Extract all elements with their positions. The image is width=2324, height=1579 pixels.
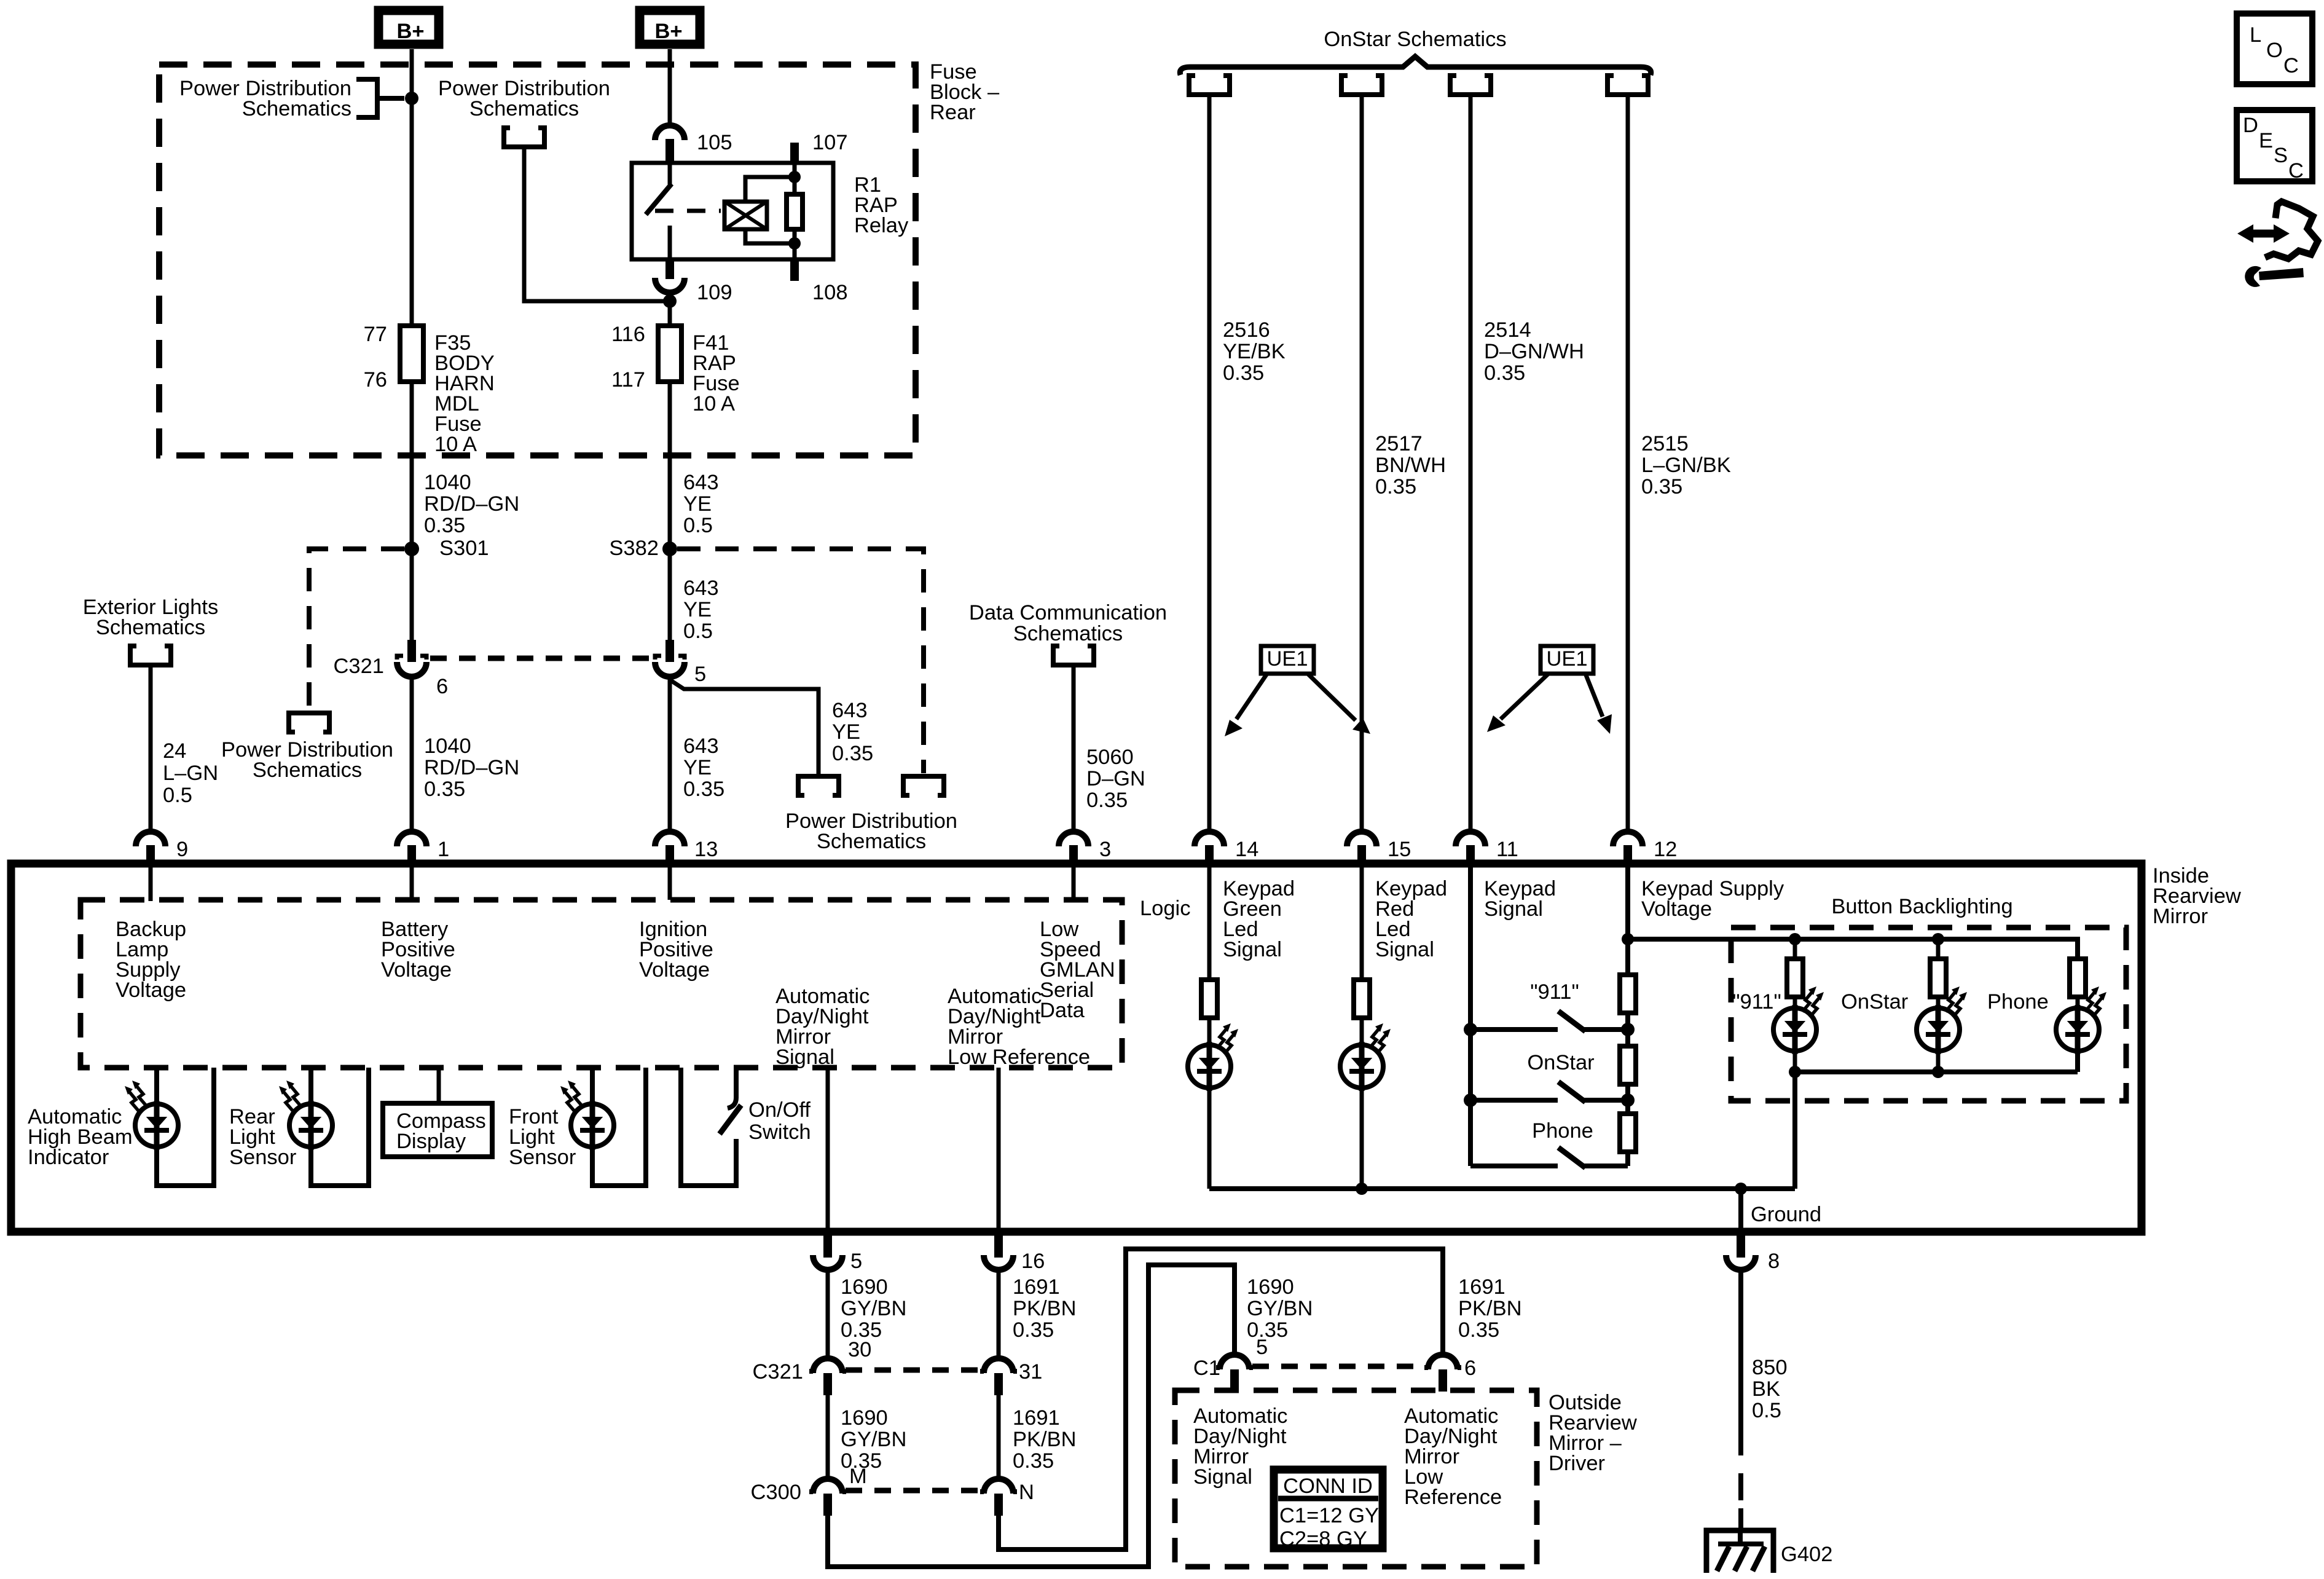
svg-text:Sensor: Sensor	[229, 1146, 296, 1169]
svg-text:Signal: Signal	[1193, 1465, 1252, 1489]
pin 16 connector	[984, 1234, 1013, 1270]
junction backlight 911	[1789, 933, 1801, 945]
svg-text:OnStar Schematics: OnStar Schematics	[1324, 28, 1506, 51]
wire label 2517 BN/WH 0.35	[1375, 432, 1446, 498]
svg-text:76: 76	[364, 368, 387, 392]
resistor ladder 1	[1620, 975, 1636, 1013]
svg-text:Voltage: Voltage	[381, 958, 452, 982]
relay coil	[724, 202, 767, 229]
pin 105 connector	[655, 125, 685, 157]
svg-text:643: 643	[683, 577, 719, 600]
power distribution reference 3 label	[438, 77, 610, 120]
svg-text:6: 6	[436, 675, 448, 698]
wire B+1 down to fuse F35	[410, 49, 414, 326]
wire pin3 into logic box	[1072, 864, 1076, 900]
svg-text:RD/D–GN: RD/D–GN	[424, 756, 519, 779]
wire from reference down and right to relay output node	[524, 147, 667, 301]
switch OnStar blade	[1558, 1082, 1585, 1102]
junction with reference feed	[663, 294, 677, 308]
relay internal resistor	[787, 194, 803, 229]
inside rearview mirror label	[2153, 864, 2241, 928]
outside rearview mirror label	[1549, 1391, 1637, 1475]
backlight 911 LED	[1773, 1005, 1816, 1054]
wire label 1690 GY/BN 0.35	[841, 1275, 906, 1342]
svg-text:C1=12 GY: C1=12 GY	[1279, 1504, 1379, 1527]
resistor green led	[1201, 980, 1217, 1018]
wire 2515 to pin 12	[1626, 95, 1630, 832]
power distribution reference 4 bracket	[903, 776, 944, 795]
pin 108 stub	[790, 259, 799, 281]
svg-text:2516: 2516	[1223, 318, 1270, 342]
wire label 1691 PK/BN 0.35	[1013, 1275, 1077, 1342]
svg-text:"911": "911"	[1530, 980, 1579, 1004]
light arrows green LED	[1217, 1023, 1238, 1054]
svg-text:"911": "911"	[1732, 990, 1781, 1014]
dashed gang line C321 bottom	[846, 1368, 981, 1373]
splice S382	[662, 541, 677, 556]
svg-text:C2=8 GY: C2=8 GY	[1279, 1527, 1367, 1551]
svg-text:S382: S382	[609, 537, 659, 560]
svg-text:RD/D–GN: RD/D–GN	[424, 492, 519, 516]
svg-text:Schematics: Schematics	[817, 830, 926, 853]
svg-text:BK: BK	[1752, 1377, 1780, 1401]
wire C321-31 to C300-N	[997, 1395, 1001, 1480]
svg-text:OnStar: OnStar	[1841, 990, 1908, 1014]
resistor red led	[1354, 980, 1370, 1018]
svg-text:643: 643	[683, 734, 719, 758]
pin label Backup Lamp Supply Voltage	[116, 918, 186, 1002]
backlighting return rail	[1795, 1051, 2078, 1072]
svg-text:D–GN/WH: D–GN/WH	[1484, 340, 1584, 363]
svg-text:15: 15	[1388, 838, 1411, 861]
svg-text:1691: 1691	[1013, 1406, 1060, 1430]
relay bottom node wiring	[745, 229, 795, 259]
wire pin109 to F41	[668, 293, 672, 326]
resistor ladder 3	[1620, 1114, 1636, 1152]
svg-text:L–GN/BK: L–GN/BK	[1641, 454, 1731, 477]
svg-text:2515: 2515	[1641, 432, 1689, 455]
wire 911 LED to rail	[1793, 1051, 1797, 1072]
UE1 reference box 1	[1261, 646, 1314, 674]
resistor backlight Phone	[2070, 959, 2086, 997]
pin 13 connector	[655, 832, 685, 864]
svg-text:GY/BN: GY/BN	[841, 1297, 906, 1320]
UE1 arrows 2	[1501, 674, 1549, 719]
wire to 911 resistor	[1793, 939, 1797, 959]
junction red LED on bus	[1356, 1183, 1368, 1195]
backlight OnStar LED	[1917, 1005, 1960, 1054]
switch Phone row	[1470, 1164, 1628, 1168]
light arrows backlight Phone	[2085, 986, 2106, 1017]
backlight Phone LED	[2056, 1005, 2099, 1054]
pin label Low Speed GMLAN Serial Data	[1040, 918, 1115, 1022]
wire label 643 YE 0.5	[683, 471, 719, 537]
svg-text:0.35: 0.35	[1086, 789, 1128, 812]
svg-text:Low Reference: Low Reference	[948, 1045, 1090, 1069]
wire to OnStar resistor	[1936, 939, 1941, 959]
svg-text:1690: 1690	[1247, 1275, 1294, 1299]
data communication reference bracket	[1053, 646, 1094, 665]
junction return 911	[1789, 1066, 1801, 1078]
svg-text:Button Backlighting: Button Backlighting	[1831, 895, 2012, 918]
svg-text:30: 30	[848, 1338, 871, 1361]
svg-text:L–GN: L–GN	[163, 762, 218, 785]
svg-text:YE/BK: YE/BK	[1223, 340, 1286, 363]
splice S301	[404, 541, 419, 556]
svg-text:Logic: Logic	[1140, 897, 1190, 920]
power distribution reference 2 label	[221, 738, 393, 782]
keypad signal rail pin 11	[1468, 864, 1473, 1166]
light arrows rear sensor	[279, 1081, 300, 1111]
svg-text:9: 9	[176, 838, 188, 861]
svg-text:0.5: 0.5	[683, 620, 713, 643]
switch 911 blade	[1558, 1011, 1585, 1031]
label On/Off Switch	[748, 1098, 811, 1144]
automatic high beam indicator loop	[157, 1068, 214, 1186]
pin 109 connector	[665, 259, 674, 279]
svg-text:Mirror: Mirror	[2153, 905, 2208, 928]
svg-text:GY/BN: GY/BN	[841, 1428, 906, 1451]
wire 1690 C300 to C1-5	[828, 1265, 1235, 1567]
svg-text:1040: 1040	[424, 734, 471, 758]
svg-text:117: 117	[611, 368, 645, 392]
junction supply to backlighting	[1622, 933, 1634, 945]
power distribution reference 3 bracket	[504, 128, 544, 147]
svg-text:0.35: 0.35	[832, 742, 873, 765]
switch 911 row	[1470, 1027, 1628, 1032]
resistor backlight OnStar	[1930, 959, 1946, 997]
junction OnStar left	[1464, 1093, 1477, 1107]
ground bus inside mirror	[1209, 1186, 1795, 1191]
light arrows backlight 911	[1802, 986, 1824, 1017]
dashed branch S301 to power distribution reference	[309, 549, 404, 712]
svg-text:2517: 2517	[1375, 432, 1423, 455]
wire pin13 into logic box	[668, 864, 672, 900]
ground wire below pin 8	[1738, 1270, 1743, 1532]
svg-text:14: 14	[1235, 838, 1258, 861]
keypad red led signal label	[1375, 877, 1447, 961]
OnStar reference bracket 4	[1608, 76, 1648, 95]
B+ terminal 1	[379, 10, 439, 44]
exterior lights reference label	[83, 596, 219, 639]
wire label 2516 YE/BK 0.35	[1223, 318, 1286, 385]
svg-text:0.35: 0.35	[1013, 1449, 1054, 1473]
svg-text:5060: 5060	[1086, 746, 1134, 769]
resistor ladder 2	[1620, 1046, 1636, 1084]
wire to pin 9	[149, 665, 153, 832]
wire below F41	[668, 382, 672, 640]
relay top node wiring	[745, 163, 795, 202]
branch wire 643 to reference 5	[670, 677, 819, 775]
svg-text:Schematics: Schematics	[253, 758, 362, 782]
switch Phone blade	[1558, 1148, 1585, 1168]
exterior lights reference bracket	[130, 646, 171, 665]
wire label 1691 PK/BN at C1	[1458, 1275, 1522, 1342]
wire resistor to LED	[1207, 1018, 1212, 1045]
svg-text:PK/BN: PK/BN	[1013, 1297, 1077, 1320]
svg-text:E: E	[2259, 129, 2273, 152]
pin 107 stub	[790, 143, 799, 163]
wire 2514 to pin 11	[1469, 95, 1473, 832]
wire C321-30 to C300-M	[826, 1395, 830, 1480]
automatic high beam indicator LED	[135, 1101, 178, 1150]
DESC box	[2237, 110, 2312, 183]
wire pin16 low reference inside logic box	[997, 1068, 1001, 1233]
svg-text:Phone: Phone	[1532, 1119, 1593, 1143]
svg-text:77: 77	[364, 323, 387, 346]
svg-text:13: 13	[694, 838, 718, 861]
keypad green led signal label	[1223, 877, 1295, 961]
svg-text:Signal: Signal	[1484, 897, 1543, 921]
svg-text:Driver: Driver	[1549, 1452, 1605, 1475]
label Automatic High Beam Indicator	[28, 1105, 133, 1169]
svg-text:B+: B+	[654, 20, 682, 43]
svg-text:C: C	[2283, 54, 2299, 77]
svg-text:643: 643	[683, 471, 719, 494]
wire pin16 to C321-31	[997, 1270, 1001, 1360]
fuse F35	[400, 326, 423, 382]
svg-text:G402: G402	[1781, 1543, 1832, 1566]
svg-text:Voltage: Voltage	[116, 979, 186, 1002]
connector C321 pin 5	[655, 640, 685, 677]
svg-text:UE1: UE1	[1546, 647, 1587, 671]
svg-text:24: 24	[163, 739, 186, 763]
wire label 2515 L-GN/BK 0.35	[1641, 432, 1731, 498]
svg-text:S301: S301	[439, 537, 489, 560]
connector C1 pin 6	[1424, 1355, 1461, 1392]
svg-text:109: 109	[697, 281, 732, 304]
UE1 reference box 2	[1541, 646, 1593, 674]
wire label 1691 PK/BN lower	[1013, 1406, 1077, 1473]
wire label 850 BK 0.5	[1752, 1356, 1788, 1422]
compass display box	[383, 1103, 492, 1157]
svg-text:1690: 1690	[841, 1275, 888, 1299]
dashed connector gang line C321	[430, 656, 651, 661]
svg-text:850: 850	[1752, 1356, 1788, 1379]
inner logic dashed box	[80, 900, 1122, 1068]
svg-text:1040: 1040	[424, 471, 471, 494]
svg-text:C1: C1	[1193, 1357, 1220, 1380]
svg-text:1691: 1691	[1458, 1275, 1505, 1299]
branch wire label 643 YE 0.35	[832, 699, 873, 765]
wire red LED to ground bus	[1360, 1088, 1364, 1189]
svg-text:S: S	[2274, 144, 2288, 167]
tools icon hand outline	[2265, 202, 2318, 259]
svg-text:0.35: 0.35	[424, 778, 465, 801]
keypad supply rail pin 12	[1625, 864, 1630, 975]
label outside mirror low reference	[1404, 1404, 1502, 1509]
front light sensor LED	[571, 1101, 614, 1150]
connector C300 pin N	[980, 1479, 1017, 1516]
svg-text:B+: B+	[396, 20, 424, 43]
svg-text:1: 1	[438, 838, 449, 861]
svg-text:GY/BN: GY/BN	[1247, 1297, 1313, 1320]
UE1 arrows 1	[1236, 674, 1267, 719]
wire label 5060 D-GN 0.35	[1086, 746, 1145, 812]
rear light sensor LED	[289, 1101, 332, 1150]
dashed gang line C300	[846, 1488, 981, 1494]
ground wire through box bottom	[1738, 1189, 1743, 1233]
svg-text:11: 11	[1496, 838, 1518, 861]
svg-text:C300: C300	[751, 1481, 801, 1504]
svg-text:16: 16	[1021, 1250, 1045, 1273]
svg-text:10 A: 10 A	[434, 433, 477, 456]
svg-text:On/Off: On/Off	[748, 1098, 811, 1122]
pin 8 connector	[1726, 1234, 1756, 1270]
svg-text:D–GN: D–GN	[1086, 767, 1145, 790]
svg-text:YE: YE	[832, 720, 860, 744]
wire pin5 mirror signal inside logic box	[826, 1068, 830, 1233]
pin 12 connector	[1613, 832, 1643, 864]
wire label 1690 GY/BN at C1	[1247, 1275, 1313, 1342]
pin 14 connector	[1195, 832, 1224, 864]
wire label 643 YE 0.35	[683, 734, 724, 801]
resistor backlight 911	[1787, 959, 1803, 997]
wire 2517 to pin 15	[1360, 95, 1364, 832]
junction ground tap on bus	[1735, 1183, 1747, 1195]
label Front Light Sensor	[509, 1105, 576, 1169]
on/off switch blade	[720, 1105, 741, 1134]
LOC box	[2237, 14, 2312, 84]
rear light sensor loop	[311, 1068, 369, 1186]
svg-text:0.35: 0.35	[1013, 1318, 1054, 1342]
fuse F41	[658, 326, 681, 382]
pin 11 connector	[1456, 832, 1485, 864]
wire B+2 down to pin 105	[668, 49, 672, 127]
svg-text:1690: 1690	[841, 1406, 888, 1430]
wire pin1 into logic box	[410, 864, 414, 900]
svg-text:UE1: UE1	[1266, 647, 1308, 671]
wire pin15 to resistor	[1360, 864, 1364, 980]
wire OnStar LED to rail	[1936, 1051, 1941, 1072]
connector C321 pin 31	[980, 1358, 1017, 1395]
svg-text:Relay: Relay	[854, 214, 909, 237]
junction return OnStar	[1932, 1066, 1944, 1078]
label Automatic Day/Night Mirror Signal	[775, 985, 870, 1069]
light arrows front sensor	[560, 1081, 582, 1111]
button backlighting dashed box	[1731, 927, 2126, 1101]
svg-text:0.35: 0.35	[424, 514, 465, 537]
relay R1 box	[632, 163, 833, 259]
wire below F35	[410, 382, 414, 640]
label Rear Light Sensor	[229, 1105, 296, 1169]
svg-text:0.35: 0.35	[1223, 361, 1264, 385]
pin 15 connector	[1347, 832, 1376, 864]
svg-text:31: 31	[1019, 1360, 1042, 1384]
pin 3 connector	[1059, 832, 1088, 864]
svg-text:Schematics: Schematics	[242, 97, 351, 120]
svg-text:10 A: 10 A	[693, 392, 735, 415]
svg-text:5: 5	[850, 1250, 862, 1273]
outside rearview mirror dashed box	[1175, 1390, 1537, 1567]
inside rearview mirror box	[11, 864, 2141, 1232]
connector C300 pin M	[809, 1479, 846, 1516]
wire C321-6 to pin 1	[410, 677, 414, 832]
svg-text:YE: YE	[683, 756, 712, 779]
front light sensor loop	[592, 1068, 646, 1186]
relay switch link dashes	[655, 209, 721, 213]
svg-text:D: D	[2243, 114, 2258, 137]
keypad signal label	[1484, 877, 1556, 921]
OnStar reference bracket 2	[1341, 76, 1382, 95]
svg-text:3: 3	[1099, 838, 1111, 861]
junction 911 left	[1464, 1023, 1477, 1036]
connector C321 pin 6	[397, 640, 426, 677]
power distribution reference 1 bracket	[356, 79, 404, 117]
wire label 1690 GY/BN lower	[841, 1406, 906, 1473]
tools icon wrench	[2245, 266, 2261, 287]
keypad supply voltage label	[1641, 877, 1784, 921]
svg-text:PK/BN: PK/BN	[1458, 1297, 1522, 1320]
junction OnStar row	[1621, 1093, 1635, 1107]
svg-text:C: C	[2288, 159, 2304, 183]
fuse block rear dashed box	[159, 65, 916, 455]
svg-text:Signal: Signal	[775, 1045, 834, 1069]
junction backlight OnStar	[1932, 933, 1944, 945]
wire pin9 into logic box	[149, 864, 153, 901]
svg-text:M: M	[849, 1465, 867, 1488]
on/off switch upper contact	[728, 1068, 736, 1108]
CONN ID table	[1274, 1470, 1383, 1551]
svg-text:6: 6	[1464, 1357, 1476, 1380]
pin label Battery Positive Voltage	[381, 918, 455, 982]
node junction on B+1 wire	[405, 92, 418, 105]
svg-text:Data Communication: Data Communication	[969, 601, 1167, 624]
svg-text:2514: 2514	[1484, 318, 1531, 342]
dashed gang line C1	[1252, 1364, 1425, 1369]
wire to OnStar LED	[1936, 997, 1941, 1008]
power distribution reference 5 bracket	[798, 776, 839, 795]
svg-text:Signal: Signal	[1223, 938, 1282, 961]
wire pin5 to C321-30	[826, 1270, 830, 1360]
switch OnStar row	[1470, 1098, 1628, 1103]
on/off switch loop	[681, 1068, 736, 1186]
wire label 1040 RD/D-GN 0.35	[424, 471, 519, 537]
ground symbol G402	[1706, 1530, 1773, 1573]
pin 1 connector	[397, 832, 426, 864]
svg-text:5: 5	[1256, 1336, 1268, 1359]
connector C1 pin 5	[1216, 1355, 1253, 1392]
svg-text:0.35: 0.35	[1375, 475, 1416, 498]
svg-text:Schematics: Schematics	[469, 97, 579, 120]
svg-text:107: 107	[812, 131, 848, 154]
pin label Ignition Positive Voltage	[639, 918, 713, 982]
svg-text:C321: C321	[334, 655, 384, 678]
wire C321-5 to pin 13	[668, 677, 672, 832]
svg-text:Ground: Ground	[1751, 1203, 1821, 1226]
relay switch	[668, 163, 672, 184]
power distribution reference 2 bracket (below S301)	[289, 713, 329, 732]
svg-text:Data: Data	[1040, 999, 1085, 1022]
light arrows high beam	[125, 1081, 146, 1111]
svg-text:0.5: 0.5	[683, 514, 713, 537]
svg-text:Signal: Signal	[1375, 938, 1434, 961]
light arrows backlight OnStar	[1945, 986, 1967, 1017]
svg-text:105: 105	[697, 131, 732, 154]
svg-text:Switch: Switch	[748, 1120, 811, 1144]
compass display wire	[437, 1068, 441, 1103]
tools icon double arrow	[2249, 230, 2278, 238]
wire 1691 C300 to C1-6	[999, 1249, 1443, 1549]
B+ terminal 2	[640, 10, 700, 44]
OnStar reference bracket 1	[1189, 76, 1230, 95]
pin 9 connector	[136, 832, 165, 864]
svg-text:0.5: 0.5	[163, 784, 192, 807]
svg-text:8: 8	[1768, 1250, 1780, 1273]
svg-text:N: N	[1019, 1481, 1034, 1504]
rail between R2 and R3	[1625, 1084, 1630, 1114]
svg-text:YE: YE	[683, 598, 712, 621]
